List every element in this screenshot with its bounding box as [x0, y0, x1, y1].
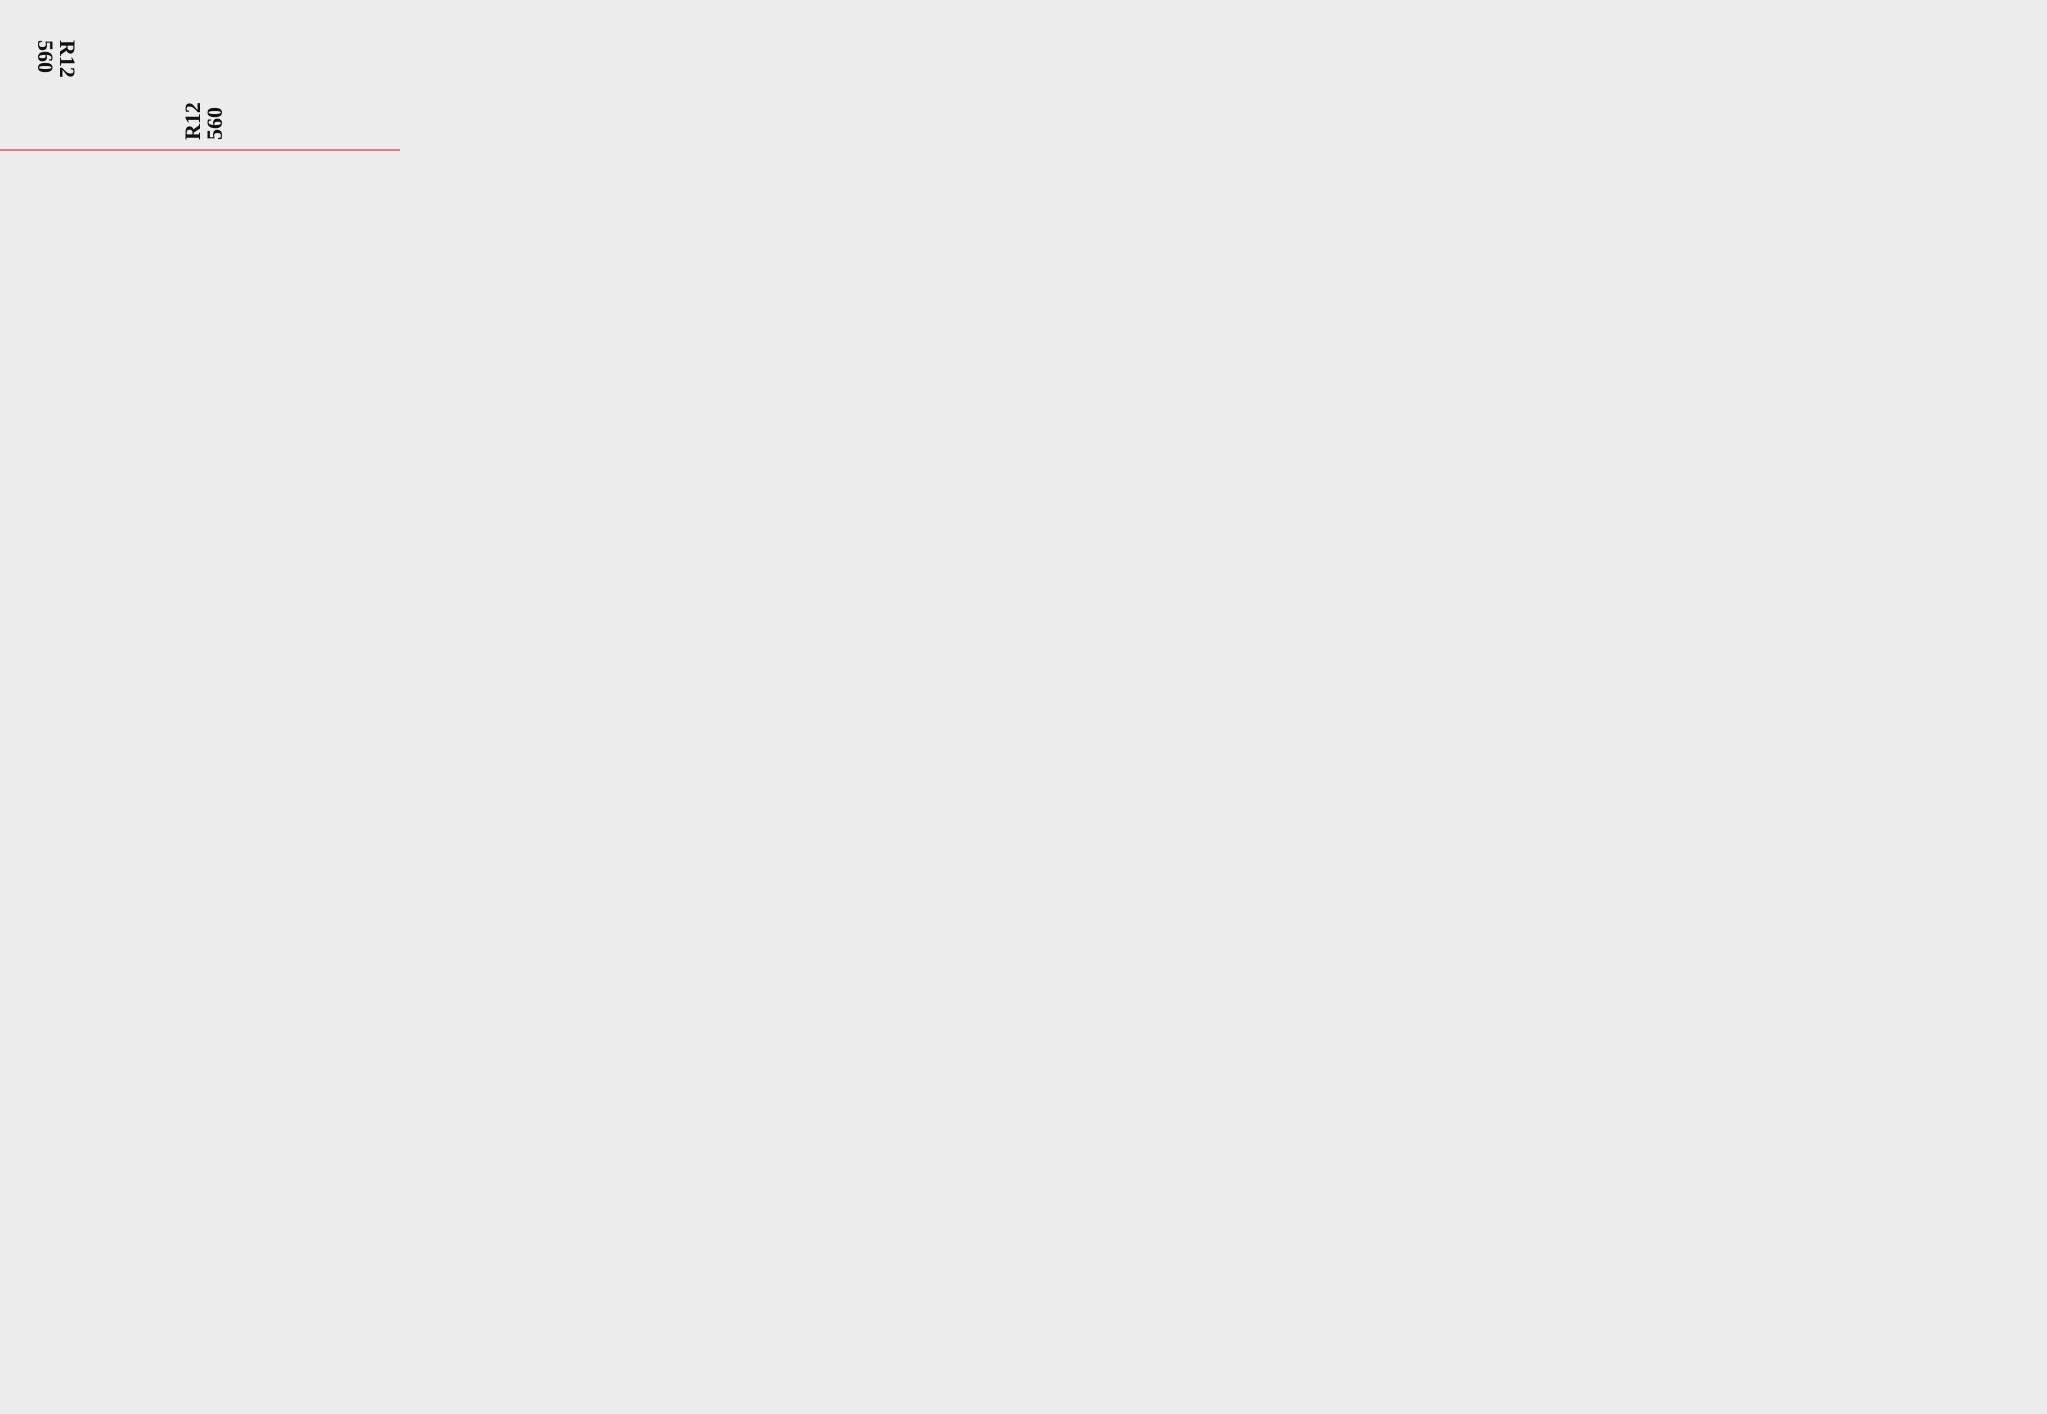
svg-text:R12560: R12560 — [33, 40, 80, 78]
svg-text:R12560: R12560 — [180, 102, 227, 140]
